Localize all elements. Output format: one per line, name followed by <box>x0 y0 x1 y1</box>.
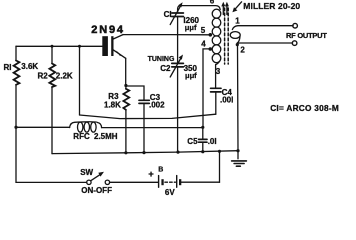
label MILLER 20-20 with pointer arrow <box>235 2 242 10</box>
capacitor C5 <box>202 127 204 139</box>
transistor Q1 2N94 <box>102 35 125 59</box>
wire vertical from base bus down to feedback line <box>79 46 81 115</box>
wire feedback line across to C4 column <box>80 114 216 118</box>
svg-text:B: B <box>158 167 163 174</box>
svg-text:5: 5 <box>201 26 206 35</box>
wire secondary ground column <box>237 45 240 151</box>
node tap 4 blob <box>209 47 213 51</box>
svg-text:RFC: RFC <box>73 132 90 141</box>
node rail dot battery riser <box>218 150 221 153</box>
node junction R2 top on base bus <box>51 45 54 48</box>
wire switch to battery <box>110 181 158 183</box>
ground symbol <box>232 151 247 167</box>
wire transformer tap 4 down to RFC junction <box>203 49 209 127</box>
svg-text:RI: RI <box>4 63 12 72</box>
svg-text:SW: SW <box>80 168 93 177</box>
svg-text:μμf: μμf <box>185 23 197 32</box>
svg-text:.002: .002 <box>149 101 165 110</box>
transformer T1 core (dashed) <box>224 8 226 64</box>
transformer T1 secondary winding <box>230 26 293 43</box>
svg-text:3.6K: 3.6K <box>21 62 38 71</box>
svg-text:6V: 6V <box>165 188 175 197</box>
capacitor C4 <box>211 87 221 89</box>
svg-text:4: 4 <box>201 39 206 48</box>
wire emitter column <box>125 58 127 85</box>
inductor RFC 2.5MH <box>70 122 102 132</box>
wire battery to riser <box>181 181 219 183</box>
wire emitter junction to C3 <box>126 86 144 100</box>
transformer tuning slug arrows <box>221 2 229 15</box>
wire transformer pin 3 column <box>215 65 217 88</box>
node rail dot C5 <box>201 150 204 153</box>
node rail dot ground corner <box>236 149 239 152</box>
svg-text:RF OUTPUT: RF OUTPUT <box>286 31 327 40</box>
node rail dot C2 column <box>176 151 179 154</box>
node emitter junction dot <box>124 84 127 87</box>
resistor R3 <box>125 86 127 89</box>
wire base bus from left rail to transistor base <box>16 45 102 47</box>
resistor R2 <box>49 64 55 88</box>
svg-text:MILLER 20-20: MILLER 20-20 <box>243 1 300 11</box>
resistor R1 <box>14 61 20 85</box>
wire collector to transformer tap 5 <box>123 34 209 36</box>
wire left rail to RFC <box>16 126 70 128</box>
wire bottom rail <box>52 151 238 154</box>
wire battery riser up to bottom rail <box>219 151 221 182</box>
node junction secondary to ground <box>236 43 239 46</box>
wire left rail (lower segment, down to switch wire) <box>15 85 17 183</box>
svg-text:C2: C2 <box>160 64 171 73</box>
svg-text:.00I: .00I <box>220 96 233 105</box>
node rail dot C3 <box>142 151 145 154</box>
capacitor C1 variable trimmer <box>170 2 183 62</box>
svg-text:ON-OFF: ON-OFF <box>81 186 112 195</box>
wire left rail (upper segment above R1) <box>15 46 17 60</box>
switch SW ON-OFF <box>87 172 110 185</box>
svg-text:1: 1 <box>235 17 240 26</box>
wire top link C1 to transformer pin 6 <box>181 6 220 10</box>
svg-text:CI= ARCO 308-M: CI= ARCO 308-M <box>270 103 339 113</box>
wire C4 column riser <box>215 92 217 114</box>
svg-text:2.2K: 2.2K <box>56 72 73 81</box>
wire RFC to C5 junction <box>102 127 203 129</box>
svg-text:R2: R2 <box>38 72 49 81</box>
svg-text:3: 3 <box>216 67 221 76</box>
svg-text:.0I: .0I <box>208 137 217 146</box>
svg-text:μμf: μμf <box>185 71 197 80</box>
svg-text:2N94: 2N94 <box>91 24 125 36</box>
svg-text:2: 2 <box>240 46 245 55</box>
RF output terminal circle bottom <box>292 41 297 46</box>
node tap 5 blob <box>209 33 213 37</box>
svg-text:CI: CI <box>164 10 172 19</box>
transformer T1 primary winding <box>212 9 221 64</box>
wire R2 column upper <box>51 46 53 63</box>
svg-text:2.5MH: 2.5MH <box>94 132 118 141</box>
svg-text:6: 6 <box>210 0 215 5</box>
svg-text:1.8K: 1.8K <box>104 101 121 110</box>
svg-text:+: + <box>148 169 154 180</box>
capacitor C2 variable tuning <box>170 55 183 153</box>
battery B 6V <box>159 176 182 188</box>
wire bottom return from left rail to switch <box>16 181 87 183</box>
wire C3 to bottom rail <box>143 104 145 153</box>
wire R3 column to bottom rail <box>125 110 127 153</box>
svg-text:C5: C5 <box>187 137 198 146</box>
svg-text:TUNING: TUNING <box>148 56 175 63</box>
node rail dot R3 <box>124 151 127 154</box>
node junction feedback tap on base bus <box>78 45 81 48</box>
capacitor C3 <box>139 99 149 101</box>
RF output terminal circle top <box>293 23 298 28</box>
wire R2 column lower, corner into bottom rail <box>51 87 53 154</box>
node junction RFC / C5 / tap4 <box>201 126 204 129</box>
node junction RFC on left rail <box>14 126 17 129</box>
